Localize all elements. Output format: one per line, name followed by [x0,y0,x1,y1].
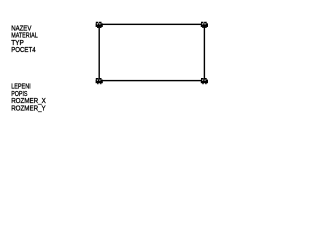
corner point marker top-left [96,22,103,28]
corner point marker bottom-right [201,78,208,84]
svg-text:POCET4: POCET4 [11,45,35,54]
corner point marker bottom-left [96,78,103,84]
corner point marker top-right [201,22,208,28]
svg-text:ROZMER_Y: ROZMER_Y [11,103,46,112]
panel outline rectangle [99,24,204,80]
